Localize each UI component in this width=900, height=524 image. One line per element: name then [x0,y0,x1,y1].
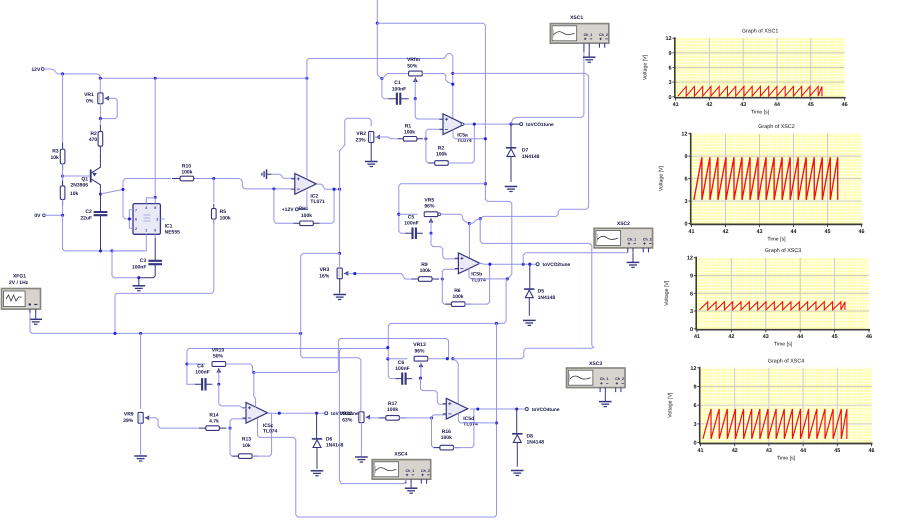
ground XFG1 [35,314,37,319]
graph panel Graph of XSC4 [668,358,875,461]
svg-text:R5: R5 [220,209,227,215]
svg-text:8: 8 [154,206,156,210]
junction VR13 fb [386,346,389,349]
wire XSC2 chA [523,252,628,264]
op-amp IC5b TL074 [455,253,486,283]
capacitor C6 100nF [395,360,412,385]
wire RH1 to output [320,189,334,223]
svg-text:R3: R3 [52,149,59,155]
svg-text:100nF: 100nF [392,86,406,92]
svg-text:12: 12 [665,36,671,42]
wire VR9 wiper to R14 [148,418,199,428]
svg-text:0: 0 [669,95,672,101]
wire VR10 right lead [226,364,254,373]
svg-text:toVCO4tune: toVCO4tune [532,407,560,413]
wire VR10 wiper [218,371,220,385]
svg-text:5: 5 [154,229,156,233]
wire VR9 bottom [140,423,142,454]
wire IC5c output [268,412,325,414]
svg-text:44: 44 [797,334,803,340]
svg-text:R13: R13 [242,437,251,443]
junction R3-Q1 base [61,174,64,177]
svg-text:R2: R2 [438,146,445,152]
svg-text:toVCO1tune: toVCO1tune [526,122,554,128]
svg-text:R6: R6 [454,288,461,294]
wire VR3 wiper to R9 [347,274,412,279]
terminal +12V [282,207,307,213]
svg-text:toVCO2tune: toVCO2tune [543,262,571,268]
potentiometer VRfm 50% [407,57,422,82]
svg-text:16%: 16% [319,273,330,279]
svg-text:45: 45 [834,448,840,454]
wire 555 supply drop [154,78,156,197]
svg-text:9: 9 [690,273,693,279]
wire VR2 bottom [370,142,372,160]
svg-text:12V: 12V [31,67,41,73]
svg-text:6: 6 [669,66,672,72]
wire Vminus to C1 [377,23,382,78]
svg-text:VR2: VR2 [356,131,366,137]
wire IC6a -input [426,129,443,139]
svg-text:Graph of XSC1: Graph of XSC1 [742,29,779,35]
resistor R16 100k [434,429,460,450]
svg-text:Ch_2: Ch_2 [421,469,430,473]
junction bus-VR3 [338,252,341,255]
svg-text:Ch_1: Ch_1 [600,377,609,381]
svg-text:R17: R17 [388,401,397,407]
junction 12V-555 [154,77,157,80]
wire IC2 supply riser [307,54,453,119]
svg-text:23%: 23% [356,138,367,144]
svg-text:96%: 96% [414,348,425,354]
wire V+ down branch [480,219,594,348]
junction C6 right [419,377,422,380]
junction 0V [61,214,64,217]
wire VR5 right lead [438,213,469,224]
svg-text:TL071: TL071 [310,199,325,205]
diode D5 1N4148 [524,264,555,315]
wire VR1 bottom [99,104,101,119]
junction C1 right [414,97,417,100]
svg-text:3: 3 [156,218,158,222]
transistor Q1 2N3906 [63,167,101,188]
svg-text:3: 3 [669,80,672,86]
svg-text:6: 6 [684,177,687,183]
svg-text:46: 46 [869,448,875,454]
wire trigger to bracket [123,217,129,219]
junction 555 bracket [128,217,131,220]
wire VR5 wiper [430,221,432,234]
junction XFG-R5wire [113,332,116,335]
svg-text:XSC1: XSC1 [570,15,583,21]
op-amp IC5d TL074 [443,398,478,427]
terminal toVCO2tune [536,262,570,268]
wire VRfm left lead [382,74,409,79]
svg-text:Graph of XSC3: Graph of XSC3 [765,248,802,254]
svg-text:+12V: +12V [282,207,294,213]
svg-text:100k: 100k [220,215,231,221]
instrument XSC2 [594,221,653,252]
junction VR5 left [397,213,400,216]
svg-text:1N4148: 1N4148 [326,443,344,449]
svg-text:63%: 63% [342,418,353,424]
wire IC2 output [317,184,340,189]
instrument XSC4 [372,452,431,484]
wire V- to VR5 drop [399,184,486,234]
junction VR10-V+ [252,371,255,374]
junction V- x485 a [484,137,487,140]
wire IC5c -input [230,419,246,428]
ground D6 [311,470,324,472]
resistor R2 470 [89,119,103,153]
wire XSC4 chA [405,463,407,465]
svg-text:45: 45 [808,102,814,108]
svg-text:Ch_2: Ch_2 [643,237,652,241]
junction pin1-0V [110,249,113,252]
wire R6 to output [465,264,490,304]
junction VR13 left [386,357,389,360]
IC IC1 NE555 [129,197,180,251]
wire IC2 supply from rail [306,78,308,179]
svg-text:D8: D8 [527,433,534,439]
capacitor C4 100nF [195,363,212,390]
svg-text:7: 7 [135,209,137,213]
junction IC5b out-XSC2 [522,263,525,266]
junction IC5b out-D5 [528,263,531,266]
svg-text:Time [s]: Time [s] [751,110,770,116]
svg-text:2V / 1Hz: 2V / 1Hz [9,280,29,286]
wire IC5b V- pin [469,269,507,279]
svg-text:Ch_1: Ch_1 [584,33,593,37]
svg-text:C1: C1 [394,80,401,86]
svg-text:3: 3 [690,309,693,315]
svg-text:Ch_2: Ch_2 [615,377,624,381]
wire IC2 feedback down [274,189,293,223]
svg-text:4.7k: 4.7k [209,419,219,425]
wire IC5d -input [432,415,447,418]
svg-text:0: 0 [684,222,687,228]
wire C4 left lead [187,383,197,385]
svg-text:VR3: VR3 [320,267,330,273]
junction V+ VR13 [446,357,449,360]
svg-text:3: 3 [684,199,687,205]
svg-text:6: 6 [693,403,696,409]
resistor R1 100k [397,123,423,141]
wire R5 bottom to XFG [115,219,214,334]
terminal toVCO1tune [511,122,554,128]
junction VR9 feed [139,332,142,335]
svg-text:Graph of XSC2: Graph of XSC2 [758,124,795,130]
junction IC5b V- [506,277,509,280]
junction bus-VR9 line [299,332,302,335]
svg-text:XFG1: XFG1 [13,273,26,279]
wire VR13 right lead [428,358,448,360]
svg-text:1N4148: 1N4148 [527,440,545,446]
svg-text:45: 45 [832,334,838,340]
potentiometer VR10 50% [212,347,226,372]
wire R13 to output [252,413,271,456]
svg-text:100k: 100k [441,435,452,441]
wire IC6a +input [415,99,443,119]
svg-text:43: 43 [766,448,772,454]
capacitor C5 100nF [404,214,423,239]
wire XSC1 chA [583,48,585,52]
wire trigger riser [123,179,171,217]
svg-text:Ch_2: Ch_2 [599,33,608,37]
resistor R3 10k [50,74,64,170]
svg-text:100k: 100k [387,407,398,413]
ground D8 [511,470,524,472]
terminal toVCO4tune [525,407,560,413]
svg-text:100nF: 100nF [195,369,209,375]
capacitor C1 100nF [388,80,408,105]
svg-text:100k: 100k [404,130,415,136]
wire IC5b feedback [442,279,451,304]
junction C2-0V [99,249,102,252]
svg-text:3: 3 [693,422,696,428]
svg-text:470: 470 [89,137,98,143]
wire control bus [339,189,341,253]
wire VR12 wiper to R17 [369,417,379,419]
svg-text:9: 9 [669,51,672,57]
instrument XFG1 [2,273,41,314]
ground XSC3 [604,392,606,402]
graph panel Graph of XSC3 [664,248,872,347]
svg-text:VR10: VR10 [212,347,225,353]
svg-text:C4: C4 [197,363,204,369]
svg-text:50%: 50% [407,64,418,70]
wire IC5c V+ pin [254,373,256,408]
wire IC5b +input [431,233,458,259]
junction Q1-C2 [99,192,102,195]
svg-text:50%: 50% [213,354,224,360]
potentiometer VR9 39% [123,412,149,424]
svg-text:2N3906: 2N3906 [70,183,88,189]
potentiometer VR13 96% [413,342,427,366]
svg-text:Voltage [V]: Voltage [V] [668,392,674,418]
junction IC5b V+ b [468,222,471,225]
wire IC5d +input [421,378,447,404]
wire IC5c feedback [230,428,238,456]
ground VR9 [134,455,147,457]
junction R14-IC5c [228,427,231,430]
svg-text:44: 44 [774,102,780,108]
junction IC2 -input [272,187,275,190]
potentiometer VR3 16% [319,267,348,279]
capacitor C3 100nF [132,239,162,278]
terminal 12V [31,67,58,74]
svg-text:1: 1 [145,229,147,233]
svg-text:41: 41 [694,334,700,340]
svg-text:100nF: 100nF [132,264,146,270]
svg-text:IC1: IC1 [165,223,173,229]
wire VR1 top [99,78,101,92]
wire IC2 +input [272,174,295,178]
svg-text:Ch_1: Ch_1 [627,237,636,241]
wire IC5b V+ pin [468,224,470,258]
svg-text:10k: 10k [242,443,251,449]
ground XSC2 [632,253,634,263]
potentiometer VR1 [84,92,109,104]
ground XSC4 [410,484,412,489]
wire VRfm wiper [414,80,416,99]
svg-text:0: 0 [693,441,696,447]
svg-text:VR1: VR1 [84,92,94,98]
ground VR2 [365,161,378,163]
svg-text:C2: C2 [85,209,92,215]
svg-text:100k: 100k [301,213,312,219]
svg-text:41: 41 [698,448,704,454]
svg-text:22uF: 22uF [80,216,92,222]
svg-text:100k: 100k [420,268,431,274]
op-amp IC2 TL071 [291,174,325,206]
svg-text:96%: 96% [424,204,435,210]
wire VR2 top loop [339,151,341,189]
wire V+ S link [469,219,480,224]
junction VR10 left [185,362,188,365]
svg-text:Time [s]: Time [s] [767,236,786,242]
svg-text:43: 43 [740,102,746,108]
wire IC6a feedback [426,139,435,163]
wire VR3 top [339,253,341,266]
wire R10 right [195,179,291,189]
wire 0V rail down [63,215,145,251]
ground D7 [505,186,518,188]
svg-text:C6: C6 [398,360,405,366]
svg-text:43: 43 [763,334,769,340]
wire IC5d feedback [432,418,440,448]
svg-text:D5: D5 [538,289,545,295]
svg-text:Time [s]: Time [s] [774,342,793,348]
junction R1-IC6a [424,137,427,140]
wire bus to left drop [301,253,361,410]
diode D7 1N4148 [506,124,540,181]
junction IC2 out-feedback [333,188,336,191]
ground XSC1 [588,48,590,58]
svg-text:42: 42 [723,229,729,235]
junction IC5c out-D6 [315,412,318,415]
svg-text:1N4148: 1N4148 [538,295,556,301]
diode D6 1N4148 [312,413,344,468]
resistor R10 100k [172,164,202,181]
wire VR13 left lead [388,358,407,360]
capacitor C2 22uF [80,194,107,251]
wire C1 left drop [382,79,388,99]
svg-text:Voltage [V]: Voltage [V] [659,165,665,191]
junction trigger [121,188,124,191]
junction VR1-R2 [99,117,102,120]
op-amp IC6a TL074 [439,114,471,144]
junction VR3 wiper [353,272,356,275]
svg-text:2: 2 [135,227,137,231]
wire IC5b output [479,263,536,264]
wire XFG1 output [30,313,301,333]
svg-text:100nF: 100nF [404,221,418,227]
resistor R9 100k [411,262,439,281]
wire VR10 left lead [187,363,205,365]
svg-text:10k: 10k [50,155,59,161]
wire VRfm right lead [422,74,453,85]
wire VR13 wiper [420,364,422,379]
resistor R5 100k [212,179,231,224]
junction 555 pin8 [154,196,157,199]
resistor R17 100k [379,401,407,420]
svg-text:1N4148: 1N4148 [522,154,540,160]
ground IC2 +input [267,173,272,175]
graph panel Graph of XSC2 [659,124,865,242]
ground VR12 [355,456,368,458]
junction 12V-IC2 [305,77,308,80]
svg-text:4: 4 [145,206,147,210]
svg-text:6: 6 [135,218,137,222]
wire IC5c +input [219,384,246,408]
junction IC5b V+ a [479,217,482,220]
junction V- x485 b [484,182,487,185]
wire V- down to y323 [388,279,507,379]
wire R4 to 0V [62,200,64,216]
wire V+ long run [453,73,589,218]
wire IC5d V- pin [458,414,496,423]
wire V+ from right [453,347,594,358]
wire Q1 collector [99,185,101,194]
svg-text:45: 45 [825,229,831,235]
svg-text:100k: 100k [452,294,463,300]
wire Vminus top entry [376,0,378,23]
svg-text:44: 44 [800,448,806,454]
svg-text:100nF: 100nF [395,366,409,372]
svg-text:12: 12 [690,366,696,372]
svg-text:41: 41 [673,102,679,108]
svg-text:XSC4: XSC4 [394,452,407,458]
junction 12V-VR1 [99,77,102,80]
junction IC2 out-bus [338,188,341,191]
wire VR5 left lead [399,213,418,215]
junction R10-R5 [212,177,215,180]
junction top net [376,22,379,25]
svg-text:Q1: Q1 [81,176,88,182]
resistor R4 10k [60,163,78,205]
svg-text:41: 41 [689,229,695,235]
svg-text:46: 46 [859,229,865,235]
junction IC5c out-fb [278,412,281,415]
wire IC5d V+ pin [453,359,458,404]
junction IC5d V- [495,421,498,424]
junction V+ IC5d [451,357,454,360]
svg-text:12: 12 [687,256,693,262]
junction IC6a V+ net B [451,83,454,86]
junction C1 left [380,77,383,80]
svg-text:D7: D7 [522,148,529,154]
wire V+ to IC5d route [254,339,449,373]
wire top net to x485 [377,23,512,279]
svg-text:46: 46 [866,334,872,340]
svg-text:9: 9 [693,385,696,391]
junction IC6a V+ net A [451,72,454,75]
potentiometer VR5 96% [424,198,438,223]
junction IC6a out-D7 [509,123,512,126]
terminal toVCO3tune [325,411,359,417]
wire VR1 wiper loop [100,98,117,118]
graph panel Graph of XSC1 [643,29,848,116]
junction 12V-R3 [61,72,64,75]
potentiometer VR12 63% [340,411,370,423]
svg-text:R9: R9 [421,262,428,268]
instrument XSC1 [550,15,609,48]
svg-text:Graph of XSC4: Graph of XSC4 [768,358,805,364]
svg-text:Voltage [V]: Voltage [V] [643,54,649,80]
svg-text:C3: C3 [140,258,147,264]
junction R17-IC5d [430,416,433,419]
